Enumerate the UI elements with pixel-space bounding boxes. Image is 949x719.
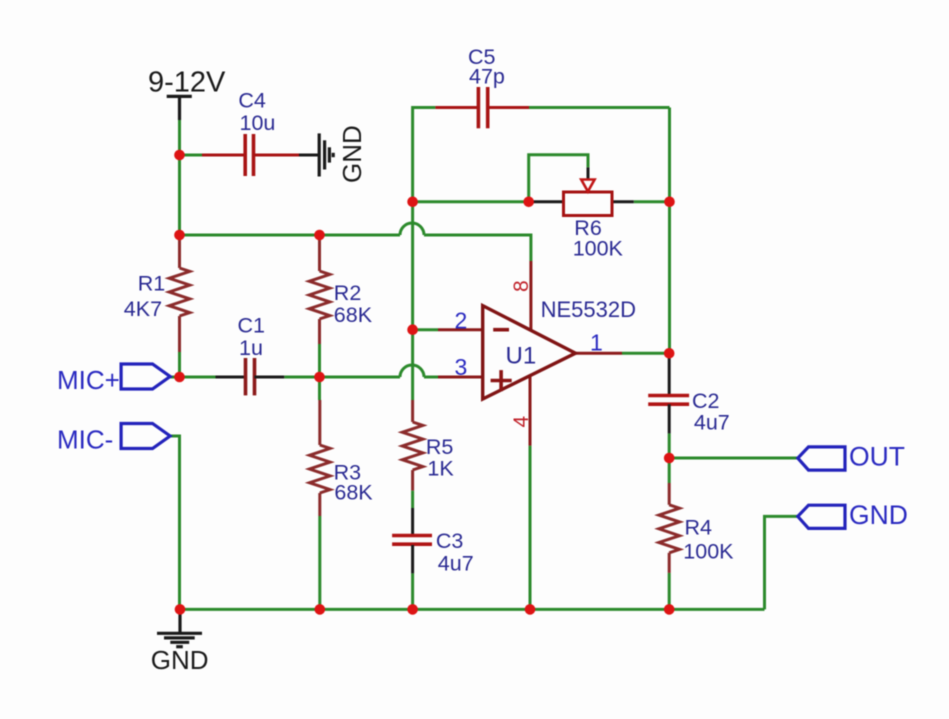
svg-text:U1: U1 <box>506 343 537 370</box>
wire C5 left stub and corner <box>413 108 436 202</box>
svg-text:GND: GND <box>337 125 367 183</box>
op-amp U1 pin 8 stub <box>529 261 532 330</box>
svg-text:R5: R5 <box>426 435 454 459</box>
junction node V+/C4 <box>174 150 185 161</box>
op-amp U1 plus sign <box>491 370 512 391</box>
port MIC+ <box>121 364 170 389</box>
svg-text:68K: 68K <box>334 481 373 505</box>
svg-text:MIC-: MIC- <box>57 425 113 455</box>
label C2 value <box>692 389 730 435</box>
svg-text:9-12V: 9-12V <box>148 67 226 99</box>
wire V+ vertical rail <box>178 119 181 237</box>
svg-text:C1: C1 <box>238 314 265 338</box>
wire right column top <box>668 108 671 354</box>
junction node OUT/C2/R4 <box>664 453 675 464</box>
resistor R3 <box>310 400 331 516</box>
svg-text:1: 1 <box>590 330 603 356</box>
wire C1 to node <box>284 376 400 379</box>
svg-text:4K7: 4K7 <box>124 297 162 321</box>
junction node R6 right/column <box>664 197 675 208</box>
wire hop over x=412 at y=377 <box>400 365 424 377</box>
capacitor C1 <box>216 358 285 395</box>
svg-text:100K: 100K <box>683 540 734 564</box>
wire V+ horizontal rail y=235 left of hop <box>180 234 401 237</box>
wire pin4 bottom <box>529 446 532 610</box>
wire R3 bottom stub <box>318 516 321 609</box>
resistor R4 <box>659 483 680 573</box>
svg-text:68K: 68K <box>334 303 373 327</box>
label C4 value <box>238 89 275 136</box>
junction node rail/R4 <box>664 604 675 615</box>
wire C5 right segment <box>529 106 670 109</box>
potentiometer R6 <box>529 167 634 215</box>
svg-text:GND: GND <box>151 645 209 675</box>
junction node rail/R3 <box>315 604 326 615</box>
wire C3 bottom <box>411 573 414 609</box>
svg-text:R4: R4 <box>685 516 713 540</box>
svg-text:100K: 100K <box>573 237 624 261</box>
op-amp U1 minus sign <box>493 328 509 332</box>
op-amp U1 pin 3 stub <box>438 376 483 379</box>
wire hop over x=412 at y=235 <box>400 223 424 235</box>
svg-text:1K: 1K <box>427 457 454 481</box>
wire bottom ground rail <box>180 608 765 611</box>
wire MIC- down to ground rail <box>170 436 180 609</box>
svg-text:GND: GND <box>849 500 908 530</box>
wire GND port <box>765 516 798 609</box>
label R4 value <box>683 516 734 564</box>
capacitor C4 <box>202 134 319 176</box>
op-amp U1 triangle <box>483 306 576 399</box>
junction node pin2 <box>407 324 418 335</box>
svg-text:C2: C2 <box>692 389 719 413</box>
resistor R2 <box>309 237 330 344</box>
svg-text:4: 4 <box>510 416 533 428</box>
wire op-amp output <box>622 352 669 355</box>
port MIC- <box>121 424 170 449</box>
power symbol 9-12V <box>167 96 192 120</box>
svg-text:2: 2 <box>455 308 468 334</box>
junction node rail/pin4 <box>525 604 536 615</box>
svg-text:C3: C3 <box>436 529 464 553</box>
wire R2 bottom stub <box>318 344 321 377</box>
label R3 value <box>334 461 374 505</box>
junction node rail/R2 <box>314 230 325 241</box>
svg-text:10u: 10u <box>240 111 276 135</box>
junction node rail/R1 <box>174 230 185 241</box>
wire R1 bottom stub <box>178 352 181 377</box>
label R1 value <box>124 272 165 322</box>
op-amp U1 pin 4 stub <box>529 376 532 446</box>
wire OUT row <box>669 457 798 460</box>
port GND (right) <box>798 505 845 528</box>
svg-text:R1: R1 <box>138 272 165 296</box>
ground symbol (bottom) <box>157 609 202 646</box>
wire R6 left <box>413 200 529 203</box>
label R6 value <box>573 216 624 261</box>
junction node R6 left/wiper <box>523 197 534 208</box>
label C3 value <box>436 529 474 576</box>
wire C4 stub <box>180 154 203 157</box>
junction node output/C2 <box>664 348 675 359</box>
wire R6 right <box>634 200 670 203</box>
wire R4 bottom <box>668 573 671 610</box>
capacitor C5 <box>435 87 529 128</box>
svg-text:OUT: OUT <box>849 442 905 472</box>
ground symbol (top, rotated) <box>319 133 333 176</box>
op-amp U1 pin 2 stub <box>438 328 483 331</box>
resistor R5 <box>402 400 423 491</box>
svg-text:MIC+: MIC+ <box>57 365 120 395</box>
wire R6 wiper loop <box>529 155 588 202</box>
wire pin2 stub <box>413 328 438 331</box>
op-amp U1 output pin stub <box>576 352 623 355</box>
port OUT <box>798 447 845 470</box>
wire V+ horizontal rail y=235 right of hop <box>424 235 531 261</box>
wire R5 to C3 <box>411 491 414 508</box>
svg-text:NE5532D: NE5532D <box>541 297 636 322</box>
resistor R1 <box>169 237 190 352</box>
junction node MIC+/R1 <box>174 372 185 383</box>
capacitor C2 <box>648 353 689 433</box>
svg-text:R2: R2 <box>334 281 361 305</box>
wire R3 top stub <box>318 377 321 400</box>
junction node C1/R2/R3 <box>314 372 325 383</box>
label R5 value <box>426 435 454 481</box>
junction node rail/GND <box>175 604 186 615</box>
svg-text:4u7: 4u7 <box>694 411 730 435</box>
capacitor C3 <box>392 508 432 573</box>
svg-text:3: 3 <box>455 354 468 380</box>
junction node x412/R6 row <box>407 197 418 208</box>
svg-text:1u: 1u <box>239 336 263 360</box>
label R2 value <box>334 281 373 327</box>
wire node to pin3 <box>424 376 438 379</box>
wire C2 bottom to OUT node <box>668 433 671 483</box>
wire MIC+ to C1 <box>170 376 216 379</box>
junction node rail/C3 <box>407 604 418 615</box>
svg-text:47p: 47p <box>469 65 505 89</box>
svg-text:C4: C4 <box>238 89 266 113</box>
label C1 value <box>238 314 265 361</box>
svg-text:4u7: 4u7 <box>438 552 474 576</box>
svg-text:8: 8 <box>510 280 533 292</box>
wire x412 vertical (C5 to R5) <box>411 202 414 400</box>
label C5 value <box>468 45 505 89</box>
